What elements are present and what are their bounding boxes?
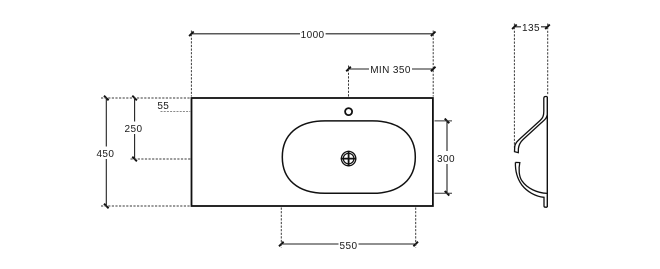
- drain cross: [341, 151, 357, 167]
- dimension MIN 350 line: [349, 68, 434, 70]
- drain inner circle: [343, 153, 354, 164]
- svg-text:450: 450: [96, 149, 114, 160]
- dimension 1000 extension lines: [191, 31, 433, 97]
- dimension 450 ticks: [104, 96, 109, 209]
- dimension 55 leader line: [161, 111, 192, 113]
- dimension 1000 ticks: [189, 32, 435, 37]
- dimension MIN 350 extension line: [348, 66, 350, 97]
- dimension 300 extension lines: [435, 121, 453, 193]
- bowl oval: [282, 121, 415, 193]
- dimension 550 line: [281, 243, 415, 245]
- drain outer circle: [341, 151, 355, 165]
- svg-text:55: 55: [157, 101, 169, 112]
- dimension 250 line: [134, 98, 136, 159]
- side view back wall line: [546, 97, 548, 208]
- dimension 1000 line: [191, 33, 433, 35]
- svg-text:300: 300: [437, 154, 455, 165]
- svg-text:1000: 1000: [301, 30, 325, 41]
- svg-text:250: 250: [125, 124, 143, 135]
- dimension 550 ticks: [279, 242, 418, 247]
- svg-text:135: 135: [522, 23, 540, 34]
- svg-text:550: 550: [340, 241, 358, 252]
- dimension 135 line: [514, 26, 547, 28]
- dimension 250 extension line (drain center): [131, 158, 192, 160]
- dimension 135 extension lines: [514, 24, 547, 150]
- side view upper rim profile: [515, 97, 548, 153]
- svg-text:MIN 350: MIN 350: [370, 65, 411, 76]
- dimension 450 line: [105, 98, 107, 206]
- dimension 250 ticks: [132, 96, 137, 162]
- dimension 550 extension lines: [281, 208, 415, 248]
- side view lower bowl profile: [515, 162, 547, 207]
- dimension 300 line: [446, 121, 448, 193]
- basin outline (top view): [192, 98, 433, 206]
- tap hole: [345, 108, 352, 115]
- dimension 450 extension lines: [101, 98, 191, 206]
- dimension MIN 350 ticks: [346, 67, 435, 72]
- dimension 135 ticks: [512, 25, 550, 30]
- dimension 300 ticks: [445, 119, 450, 196]
